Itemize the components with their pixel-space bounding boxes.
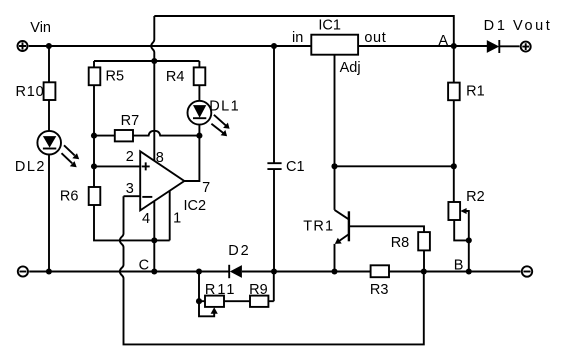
wire node A through R1 to R2 top xyxy=(453,46,455,202)
junction node B dot xyxy=(466,268,472,274)
wire DL1 cathode to op-amp output pin 7 xyxy=(184,125,199,181)
resistor R1 xyxy=(448,83,460,101)
wire Vin to IC1 in xyxy=(29,45,312,47)
wire R5 R4 top bus y61 xyxy=(94,61,199,67)
svg-text:R6: R6 xyxy=(60,189,79,205)
svg-text:A: A xyxy=(438,33,448,49)
junction dot R2 bottom xyxy=(466,237,472,243)
svg-text:3: 3 xyxy=(126,181,134,197)
svg-text:C1: C1 xyxy=(286,159,305,175)
wire C1 top lead xyxy=(273,46,275,163)
wire bottom rail right section R3 to terminal xyxy=(389,271,521,273)
op-amp IC2 triangle xyxy=(140,151,184,210)
junction dot C1 bottom xyxy=(271,268,277,274)
svg-text:D2: D2 xyxy=(228,243,250,259)
junction dot TR1 emitter rail xyxy=(331,268,337,274)
wire R2 bottom and down to node B xyxy=(454,220,469,272)
resistor R2 xyxy=(448,202,460,220)
wire R7 feedback with hop over pin8 line xyxy=(94,131,199,136)
svg-text:Adj: Adj xyxy=(340,60,361,76)
svg-text:IC1: IC1 xyxy=(318,18,341,34)
junction dot DL1 R7 output xyxy=(196,133,202,139)
svg-text:Vout: Vout xyxy=(513,18,552,34)
arrowhead TR1 emitter xyxy=(335,238,342,244)
wire pin8 riser with hop over Vin wire xyxy=(151,16,154,61)
terminal Vin xyxy=(18,41,28,51)
wire TR1 emitter to rail xyxy=(334,244,336,272)
wire op-amp pin 3 with hops down to bottom return xyxy=(120,196,424,344)
svg-text:R5: R5 xyxy=(106,69,125,85)
svg-text:R3: R3 xyxy=(370,282,389,298)
svg-text:R4: R4 xyxy=(166,69,185,85)
wire bottom rail left section xyxy=(29,271,229,273)
transistor TR1 collector arm xyxy=(335,210,349,220)
junction dot bus61 xyxy=(151,58,157,64)
junction node A xyxy=(451,43,457,49)
junction dot C1 top xyxy=(271,43,277,49)
junction dot pin4 pin1 xyxy=(151,237,157,243)
svg-text:DL2: DL2 xyxy=(15,159,46,175)
capacitor C1 plates xyxy=(267,163,281,169)
wire R4 to DL1 anode xyxy=(198,85,200,101)
resistor R7 xyxy=(115,130,133,141)
junction dot R11 left xyxy=(196,298,202,304)
wire R2 wiper to bottom terminal xyxy=(466,211,469,240)
IC1 regulator body xyxy=(311,35,358,55)
wire IC1 Adj down through node to TR1 collector xyxy=(334,55,336,210)
wire op-amp pin 4 down to node C xyxy=(153,201,155,271)
resistor R6 xyxy=(89,187,101,205)
arrowhead R2 wiper xyxy=(460,208,466,214)
resistor R4 xyxy=(194,67,206,85)
svg-text:1: 1 xyxy=(173,211,181,227)
junction dot pin2 R6 xyxy=(91,163,97,169)
wire DL2 cathode down to bottom rail xyxy=(48,155,50,272)
svg-text:in: in xyxy=(292,30,303,46)
resistor R9 xyxy=(250,296,268,307)
svg-text:C: C xyxy=(139,257,149,273)
wire top rail from pin8 riser to node A xyxy=(154,16,454,46)
svg-text:Vin: Vin xyxy=(30,20,51,36)
svg-text:B: B xyxy=(454,258,464,274)
svg-text:D1: D1 xyxy=(484,18,508,34)
wire op-amp pin 1 xyxy=(169,191,171,241)
wire D1 cathode to Vout terminal xyxy=(499,45,519,47)
svg-text:R7: R7 xyxy=(121,113,140,129)
wire TR1 base to R8 xyxy=(349,226,424,232)
wire C1 bottom lead xyxy=(273,169,275,271)
junction dot R1 bottom xyxy=(451,163,457,169)
transistor TR1 base bar xyxy=(348,211,350,241)
resistor R5 xyxy=(89,67,101,85)
wire R10 to DL2 anode xyxy=(48,100,50,131)
svg-text:R9: R9 xyxy=(249,282,268,298)
op-amp plus input mark xyxy=(142,162,150,170)
wire Adj node to R1 bottom node y166 xyxy=(335,165,454,167)
wire R5 bottom through pin2 node to R6 xyxy=(93,85,95,187)
wire Vin junction down to R10 xyxy=(48,46,50,82)
svg-text:DL1: DL1 xyxy=(209,99,240,115)
LED DL2 xyxy=(37,131,79,167)
resistor R3 xyxy=(371,265,389,277)
junction dot Vin branch xyxy=(46,43,52,49)
svg-text:4: 4 xyxy=(142,211,150,227)
wire R6 bottom to pins 4 and 1 bus xyxy=(94,205,170,240)
junction dot D2 R11 xyxy=(196,268,202,274)
terminal Vout xyxy=(521,42,531,52)
junction dot DL2 rail xyxy=(46,268,52,274)
terminal negative right xyxy=(522,266,532,276)
diode D1 xyxy=(487,40,500,53)
svg-text:8: 8 xyxy=(156,150,164,166)
svg-text:2: 2 xyxy=(126,149,134,165)
arrowhead R11 wiper xyxy=(211,307,218,314)
wire pin8 from bus to op-amp top edge xyxy=(153,61,155,161)
junction dot R5 R7 xyxy=(91,133,97,139)
junction dot R8 bottom rail xyxy=(421,268,427,274)
junction node C xyxy=(151,268,157,274)
resistor R11 xyxy=(205,296,224,307)
op-amp minus input mark xyxy=(142,196,152,198)
resistor R10 xyxy=(44,82,56,100)
wire R8 bottom to rail xyxy=(423,250,425,271)
svg-text:7: 7 xyxy=(202,180,210,196)
svg-text:out: out xyxy=(364,30,386,46)
wire IC1 out to D1 anode xyxy=(358,45,487,47)
wire op-amp pin 2 input xyxy=(94,165,140,167)
svg-text:IC2: IC2 xyxy=(184,198,207,214)
junction dot Adj node xyxy=(331,163,337,169)
svg-text:R11: R11 xyxy=(205,282,237,298)
resistor R8 xyxy=(418,232,430,250)
wire bottom rail middle section D2 to R3 xyxy=(242,271,371,273)
LED DL1 xyxy=(188,101,230,136)
diode D2 xyxy=(229,265,242,278)
svg-text:R1: R1 xyxy=(466,83,485,99)
wire R11 wiper return xyxy=(199,301,214,316)
svg-text:R10: R10 xyxy=(16,84,45,100)
svg-text:R8: R8 xyxy=(391,235,410,251)
transistor TR1 emitter arm xyxy=(338,234,349,242)
terminal negative left xyxy=(18,266,28,276)
svg-text:TR1: TR1 xyxy=(303,218,334,234)
wire R11 R9 branch around D2 xyxy=(199,272,274,302)
svg-text:R2: R2 xyxy=(466,189,485,205)
